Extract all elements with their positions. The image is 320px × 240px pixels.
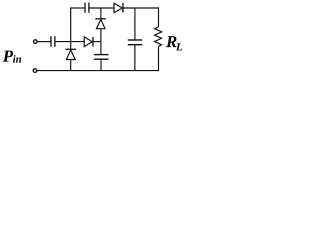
wire node B down to C2 [100, 29, 102, 55]
terminal bottom input [33, 69, 37, 73]
diode D1 [66, 42, 77, 71]
wire riser node A up to top rail [70, 7, 72, 41]
wire D2 to node B [93, 41, 101, 43]
diode D2 [84, 37, 93, 47]
wire C1 to node A [55, 41, 84, 43]
node P_in label [3, 51, 21, 63]
wire top terminal to C1 [38, 41, 51, 43]
wire bottom rail [37, 70, 159, 72]
diode D4 [114, 3, 123, 13]
wire D4 to top-right corner [123, 7, 159, 9]
terminal top input [34, 40, 38, 44]
capacitor C2 [94, 55, 109, 60]
wire C2 to bottom rail [100, 59, 102, 70]
wire right side down from corner [158, 7, 160, 27]
wire C3 to D4 [89, 7, 114, 9]
resistor R_L [155, 27, 162, 46]
wire C4 to bottom rail [134, 45, 136, 71]
wire resistor to bottom-right corner [158, 46, 160, 71]
diode D3 [95, 8, 106, 29]
capacitor C4 [128, 40, 142, 45]
capacitor C3 [85, 3, 89, 13]
wire C4 top lead [134, 8, 136, 40]
node R_L label [166, 36, 182, 50]
capacitor C1 [51, 36, 55, 47]
wire top rail left segment [70, 7, 85, 9]
